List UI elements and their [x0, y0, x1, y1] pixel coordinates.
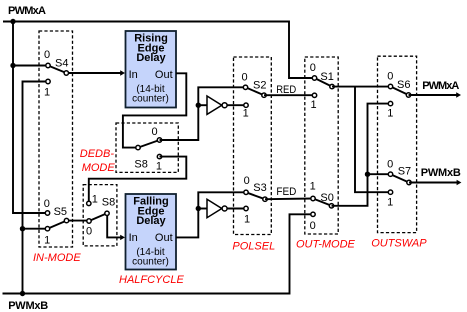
switch S8 upper (DEDB-MODE) [134, 126, 162, 173]
svg-text:1: 1 [243, 107, 249, 119]
svg-text:S3: S3 [253, 182, 266, 194]
wire: PWMxA input bus to S1 bypass [3, 22, 315, 79]
wire: S0 common up-cross to S7-0 and S6-1 [332, 104, 391, 206]
wire: S2 common to S1-1 (RED signal) [264, 94, 315, 96]
switch S1 (OUT-MODE upper) [310, 62, 334, 111]
svg-text:MODE: MODE [82, 162, 116, 174]
svg-text:S8: S8 [102, 197, 115, 209]
svg-text:0: 0 [44, 198, 50, 210]
node: junction S7-0 tap [365, 172, 370, 177]
svg-text:1: 1 [92, 193, 98, 205]
svg-text:1: 1 [310, 181, 316, 193]
node: inverter tap upper [196, 103, 201, 108]
svg-text:0: 0 [44, 49, 50, 61]
svg-text:DEDB-: DEDB- [80, 148, 115, 160]
svg-text:PWMxA: PWMxA [8, 5, 46, 17]
OUTSWAP dashed box [378, 56, 417, 232]
inverter U3 (RED path) [198, 96, 246, 114]
svg-text:Out: Out [155, 69, 173, 81]
IN-MODE dashed box [39, 31, 73, 247]
svg-text:0: 0 [387, 159, 393, 171]
switch S4 [44, 49, 69, 99]
DEDB-MODE dashed box [116, 123, 178, 172]
svg-text:0: 0 [151, 126, 157, 138]
svg-text:counter): counter) [132, 257, 169, 268]
svg-text:0: 0 [242, 72, 248, 84]
svg-text:0: 0 [310, 62, 316, 74]
wire: vertical PWMxB feed from S4-1 down to rail with tap to S5-1 [23, 82, 49, 294]
svg-text:1: 1 [244, 214, 250, 226]
inverter U4 (FED path) [198, 199, 246, 217]
wire: PWMxA output arrow [409, 92, 462, 97]
wire: S3 common to S0-1 (FED signal) [265, 198, 313, 201]
svg-text:1: 1 [387, 197, 393, 209]
svg-text:1: 1 [156, 161, 162, 173]
svg-text:S8: S8 [134, 159, 147, 171]
svg-text:0: 0 [86, 226, 92, 238]
svg-text:PWMxB: PWMxB [421, 167, 461, 179]
svg-text:POLSEL: POLSEL [232, 241, 275, 253]
wire: Falling Edge Delay Out to POLSEL S3 column [176, 192, 246, 237]
wire: S1 output cross-down to S7-1 [355, 87, 391, 193]
svg-text:In: In [129, 232, 138, 244]
falling edge delay block U2 [126, 194, 177, 270]
OUT-MODE dashed box [305, 57, 338, 234]
svg-text:1: 1 [44, 235, 50, 247]
svg-text:FED: FED [276, 186, 296, 198]
switch S7 (OUTSWAP lower) [387, 159, 411, 209]
svg-text:HALFCYCLE: HALFCYCLE [119, 274, 184, 286]
svg-text:RED: RED [276, 84, 296, 96]
switch S3 (POLSEL lower) [244, 175, 268, 226]
svg-text:PWMxB: PWMxB [8, 300, 48, 312]
wire: PWMxB input bus to S0 bypass [3, 214, 314, 293]
svg-text:1: 1 [44, 87, 50, 99]
node: junction PWMxB rail [20, 291, 25, 296]
svg-text:S2: S2 [253, 79, 266, 91]
rising edge delay block U1 [126, 31, 177, 108]
svg-text:0: 0 [244, 175, 250, 187]
svg-text:Delay: Delay [136, 52, 166, 64]
S8 lower dashed box [83, 185, 117, 246]
svg-text:0: 0 [387, 71, 393, 83]
node: junction S4-0 tap [10, 63, 15, 68]
svg-text:counter): counter) [132, 94, 169, 105]
svg-text:OUT-MODE: OUT-MODE [296, 239, 356, 251]
svg-text:PWMxA: PWMxA [422, 80, 459, 92]
label DEDB-MODE [80, 148, 116, 174]
svg-text:S4: S4 [55, 58, 68, 70]
switch S5 [44, 198, 89, 247]
svg-text:Delay: Delay [136, 215, 166, 227]
svg-text:1: 1 [387, 108, 393, 120]
POLSEL dashed box [234, 57, 272, 235]
svg-text:Out: Out [155, 232, 173, 244]
wire: S8 upper 1 cross-feed down to S8 lower 1 [89, 157, 187, 204]
wire: vertical PWMxA feed to S4-0 and S5-0 [13, 22, 48, 214]
svg-text:S7: S7 [398, 165, 411, 177]
svg-text:0: 0 [310, 220, 316, 232]
switch S8 lower (falling edge input select) [86, 193, 125, 240]
wire: PWMxB output arrow [409, 180, 461, 185]
svg-text:S1: S1 [320, 71, 333, 83]
svg-text:S5: S5 [54, 206, 67, 218]
svg-text:S6: S6 [397, 79, 410, 91]
svg-text:S0: S0 [320, 192, 333, 204]
node: inverter tap lower [196, 206, 201, 211]
switch S6 (OUTSWAP upper) [387, 71, 410, 120]
node: junction S5-1 tap [20, 226, 25, 231]
node: junction PWMxA bus [10, 19, 15, 24]
wire: S1 common to S6-0 [332, 86, 391, 88]
svg-text:IN-MODE: IN-MODE [33, 252, 81, 264]
svg-text:In: In [129, 69, 138, 81]
wire: S4 common to Rising Edge Delay In with arrow [66, 70, 125, 75]
svg-text:OUTSWAP: OUTSWAP [371, 237, 427, 249]
switch S0 (OUT-MODE lower) [310, 181, 334, 232]
wire: S8 upper 0 to POLSEL S2 column [160, 87, 246, 140]
svg-text:1: 1 [310, 99, 316, 111]
switch S2 (POLSEL upper) [242, 72, 267, 120]
wire: Rising Edge Delay Out to S8 upper common [123, 73, 186, 147]
